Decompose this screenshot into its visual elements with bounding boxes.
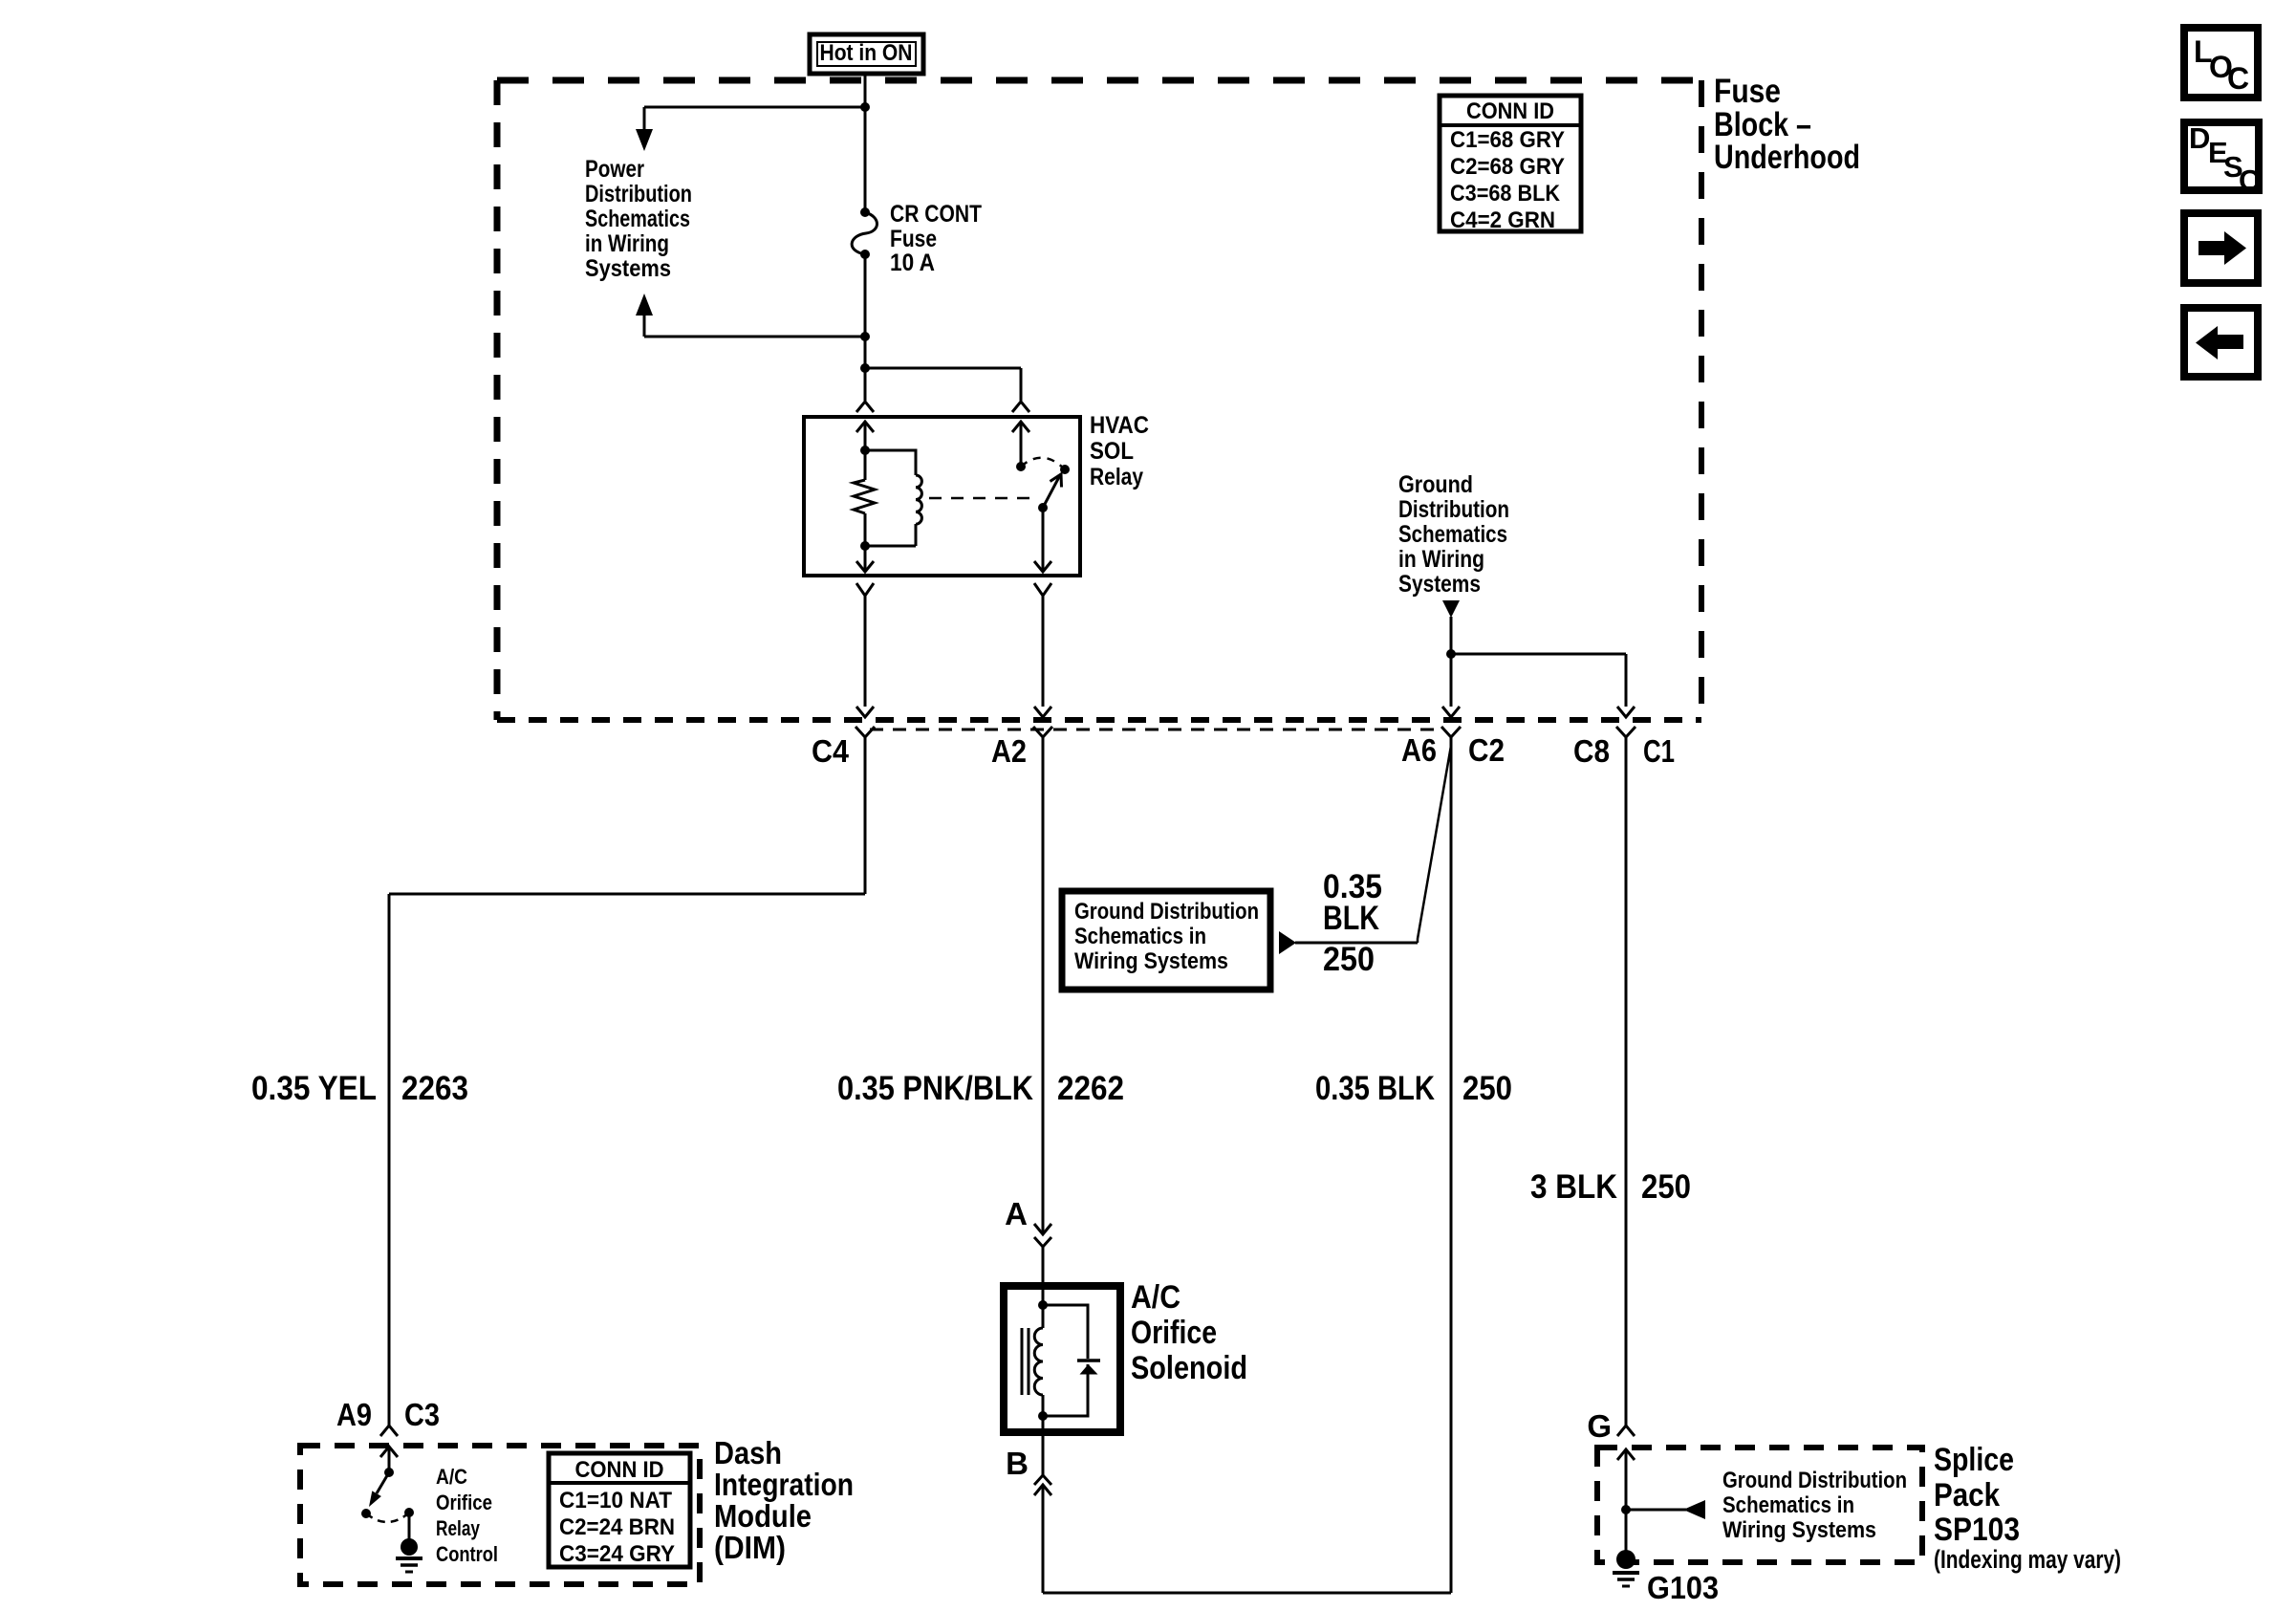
svg-text:Ground: Ground: [1398, 471, 1473, 498]
wire ground split down to A6 pin: [1450, 654, 1453, 707]
svg-text:A: A: [1005, 1196, 1028, 1231]
connector pin C4 at fuse block bottom: [856, 707, 875, 745]
wire C2 down to bottom run: [1450, 746, 1453, 1593]
svg-text:CR CONT: CR CONT: [890, 201, 982, 228]
connector female Y below relay left: [856, 583, 874, 707]
svg-text:Ground Distribution: Ground Distribution: [1722, 1468, 1907, 1493]
junction node below fuse: [860, 332, 870, 341]
svg-text:250: 250: [1462, 1070, 1512, 1107]
svg-text:(Indexing may vary): (Indexing may vary): [1934, 1545, 2121, 1574]
inline connector at pin B: [1034, 1475, 1051, 1593]
wire ground split to C8 pin: [1451, 654, 1626, 707]
label Dash Integration Module (DIM): [714, 1435, 854, 1565]
junction node relay feed split: [860, 363, 870, 373]
solenoid core bars: [1022, 1328, 1029, 1395]
junction node coil bottom: [860, 541, 870, 551]
conn id table fuse block: [1440, 96, 1581, 233]
svg-text:0.35 BLK: 0.35 BLK: [1315, 1070, 1435, 1107]
svg-text:Relay: Relay: [1090, 464, 1143, 490]
flyback diode D1: [1043, 1305, 1100, 1416]
svg-text:Systems: Systems: [585, 255, 671, 282]
DIM driver switch contact top: [384, 1468, 394, 1477]
svg-text:Integration: Integration: [714, 1467, 854, 1502]
note Indexing may vary: [1934, 1545, 2121, 1574]
connector female Y below relay right: [1034, 583, 1051, 707]
wire C4 branch down and left to DIM: [389, 745, 865, 1426]
svg-text:Pack: Pack: [1934, 1477, 2000, 1513]
svg-text:Orifice: Orifice: [1131, 1315, 1217, 1351]
wire label 0.35 PNK/BLK: [837, 1070, 1033, 1107]
junction node at top: [860, 102, 870, 112]
svg-text:C1=10 NAT: C1=10 NAT: [559, 1488, 672, 1513]
text Ground Distribution Schematics in Wiring Systems right side: [1398, 471, 1509, 598]
connector male arrow relay common pin bottom: [1034, 508, 1051, 572]
svg-text:G: G: [1587, 1408, 1612, 1444]
svg-text:CONN ID: CONN ID: [575, 1457, 664, 1483]
label HVAC SOL Relay: [1090, 412, 1149, 490]
svg-text:Fuse: Fuse: [890, 226, 937, 252]
svg-text:0.35 YEL: 0.35 YEL: [251, 1070, 377, 1107]
svg-text:C2=24 BRN: C2=24 BRN: [559, 1514, 675, 1540]
svg-text:Relay: Relay: [436, 1516, 481, 1540]
junction node coil top: [860, 446, 870, 455]
svg-text:Distribution: Distribution: [585, 181, 692, 207]
svg-text:Power: Power: [585, 156, 644, 183]
svg-text:250: 250: [1641, 1168, 1691, 1206]
boxed callout Ground Distribution Schematics in Wiring Systems: [1062, 891, 1270, 990]
svg-text:in Wiring: in Wiring: [1398, 546, 1484, 573]
wire C8 C1 down to splice pack: [1625, 745, 1628, 1426]
DIM dashed box: [300, 1446, 700, 1584]
wire label 0.35 BLK 250 stacked: [1323, 868, 1382, 978]
connector male arrow inside splice pack: [1617, 1449, 1635, 1510]
svg-text:C4=2 GRN: C4=2 GRN: [1450, 207, 1555, 233]
svg-text:HVAC: HVAC: [1090, 412, 1149, 439]
connector pin C8 C1 at fuse block bottom: [1616, 707, 1635, 745]
wire return arrow up to Systems text: [636, 294, 865, 337]
relay coil L1: [865, 450, 921, 546]
connector male arrow relay pin 1 inside: [856, 422, 874, 450]
fuse block underhood dashed box: [497, 80, 1701, 720]
wire label 0.35 BLK: [1315, 1070, 1435, 1107]
svg-text:2262: 2262: [1057, 1070, 1124, 1107]
pin label B: [1006, 1446, 1029, 1481]
wire branch to power distribution: [636, 107, 865, 151]
svg-text:A/C: A/C: [436, 1465, 467, 1489]
reference arrow from ground distribution: [1442, 600, 1460, 654]
wire label circuit 250 ground: [1641, 1168, 1691, 1206]
svg-text:C: C: [2227, 61, 2249, 96]
svg-text:Schematics: Schematics: [1398, 521, 1507, 548]
wire diagonal from A6 to ground callout: [1418, 746, 1451, 943]
svg-text:10 A: 10 A: [890, 250, 935, 276]
svg-text:Schematics in: Schematics in: [1722, 1492, 1854, 1518]
svg-text:C1=68 GRY: C1=68 GRY: [1450, 127, 1565, 153]
ground label G103: [1647, 1570, 1719, 1605]
value label CR CONT Fuse 10 A: [890, 201, 982, 276]
svg-text:Hot in ON: Hot in ON: [820, 40, 913, 66]
wire fuse to relay: [864, 254, 867, 401]
wire A2 down to A/C orifice solenoid: [1042, 745, 1045, 1234]
svg-text:C2: C2: [1468, 732, 1505, 768]
dashed throw arc of relay switch: [1021, 458, 1065, 469]
wire label circuit 2262: [1057, 1070, 1124, 1107]
splice pack dashed box: [1597, 1448, 1922, 1562]
connector female Y at relay left pin: [856, 402, 874, 412]
junction node solenoid top: [1038, 1300, 1048, 1310]
svg-text:Schematics: Schematics: [585, 206, 690, 232]
nav box arrow left: [2184, 308, 2258, 377]
junction node splice: [1621, 1505, 1631, 1514]
svg-text:in Wiring: in Wiring: [585, 230, 669, 257]
text Ground Distribution Schematics in Wiring Systems splice: [1722, 1468, 1907, 1543]
dashed mechanical link coil to switch: [929, 497, 1034, 500]
svg-text:G103: G103: [1647, 1570, 1719, 1605]
pin label C4: [812, 733, 850, 769]
wire label 3 BLK: [1530, 1168, 1617, 1206]
svg-text:Systems: Systems: [1398, 571, 1481, 598]
text A/C Orifice Relay Control: [436, 1465, 498, 1566]
svg-text:Wiring Systems: Wiring Systems: [1722, 1517, 1876, 1543]
svg-text:C2=68 GRY: C2=68 GRY: [1450, 154, 1565, 180]
pin label C1: [1643, 733, 1675, 769]
svg-text:BLK: BLK: [1323, 900, 1379, 937]
connector pin A6 C2 at fuse block bottom: [1441, 707, 1461, 746]
wire label circuit 2263: [401, 1070, 468, 1107]
reference arrow to ground distribution text in splice pack: [1626, 1500, 1705, 1519]
connector female Y at splice pack pin G: [1617, 1426, 1635, 1436]
svg-text:Schematics in: Schematics in: [1074, 924, 1206, 949]
nav box arrow right: [2184, 213, 2258, 283]
svg-text:CONN ID: CONN ID: [1466, 98, 1554, 124]
fuse CR CONT 10A: [852, 207, 877, 259]
pin label C3: [404, 1397, 440, 1432]
reference arrow to ground callout: [1279, 931, 1418, 954]
svg-text:SOL: SOL: [1090, 438, 1134, 465]
svg-text:Orifice: Orifice: [436, 1491, 492, 1514]
connector female Y at relay right pin: [1012, 402, 1029, 412]
dashed throw arc DIM switch: [366, 1513, 408, 1522]
pin label C2: [1468, 732, 1505, 768]
solenoid coil winding: [1034, 1305, 1043, 1416]
svg-text:Splice: Splice: [1934, 1442, 2014, 1478]
svg-text:A2: A2: [991, 733, 1027, 769]
connector pin A2 at fuse block bottom: [1033, 707, 1052, 745]
DIM switch ground contact: [404, 1508, 414, 1517]
ground G103: [1613, 1510, 1639, 1586]
svg-text:0.35 PNK/BLK: 0.35 PNK/BLK: [837, 1070, 1033, 1107]
svg-text:Underhood: Underhood: [1714, 139, 1860, 176]
relay switch second contact: [1060, 465, 1070, 474]
nav box LOC: [2184, 28, 2258, 98]
svg-text:C1: C1: [1643, 733, 1675, 769]
pin label A9: [336, 1397, 372, 1432]
inline connector at pin A: [1034, 1224, 1051, 1305]
svg-text:C3=68 BLK: C3=68 BLK: [1450, 181, 1561, 207]
svg-text:C3=24 GRY: C3=24 GRY: [559, 1541, 675, 1567]
connector female Y at DIM pin: [380, 1426, 398, 1436]
resistor inside relay: [854, 450, 875, 546]
pin label A6: [1401, 732, 1437, 768]
svg-text:A/C: A/C: [1131, 1279, 1180, 1316]
wire branch to relay switch pin: [865, 368, 1021, 401]
svg-text:Fuse: Fuse: [1714, 73, 1781, 110]
pin label G: [1587, 1408, 1612, 1444]
relay switch fixed contact from pin: [1012, 422, 1029, 471]
connector male arrow relay pin 2 bottom inside: [856, 546, 874, 572]
label Splice Pack SP103: [1934, 1442, 2020, 1548]
DIM driver switch arm: [369, 1472, 389, 1507]
svg-text:C4: C4: [812, 733, 850, 769]
svg-text:Dash: Dash: [714, 1435, 782, 1470]
pin label A2: [991, 733, 1027, 769]
svg-text:Wiring Systems: Wiring Systems: [1074, 948, 1228, 974]
svg-text:(DIM): (DIM): [714, 1530, 786, 1565]
text Power Distribution Schematics in Wiring Systems: [585, 156, 692, 282]
label A/C Orifice Solenoid: [1131, 1279, 1247, 1386]
pin label A: [1005, 1196, 1028, 1231]
svg-text:Solenoid: Solenoid: [1131, 1350, 1247, 1386]
thin dashed inline connector line: [870, 729, 1441, 731]
svg-text:2263: 2263: [401, 1070, 468, 1107]
connector male arrow inside DIM: [380, 1447, 398, 1472]
svg-text:A6: A6: [1401, 732, 1437, 768]
power label box Hot in ON: [810, 34, 923, 74]
wire hot feed down from Hot in ON: [864, 74, 867, 211]
internal ground of DIM: [396, 1513, 422, 1572]
wire bottom run solenoid B to C2: [1043, 1592, 1451, 1595]
junction node ground feed split: [1446, 649, 1456, 659]
svg-text:Ground Distribution: Ground Distribution: [1074, 899, 1259, 925]
nav box DESC: [2184, 121, 2260, 197]
pin label C8: [1573, 733, 1610, 769]
svg-text:SP103: SP103: [1934, 1512, 2020, 1548]
svg-text:A9: A9: [336, 1397, 372, 1432]
wire label circuit 250: [1462, 1070, 1512, 1107]
svg-text:Distribution: Distribution: [1398, 496, 1509, 523]
relay switch movable arm: [1038, 474, 1062, 512]
wire label 0.35 YEL: [251, 1070, 377, 1107]
svg-text:Control: Control: [436, 1542, 498, 1566]
solenoid box A/C Orifice Solenoid: [1004, 1286, 1120, 1432]
label Fuse Block - Underhood: [1714, 73, 1860, 176]
svg-text:3 BLK: 3 BLK: [1530, 1168, 1617, 1206]
svg-text:B: B: [1006, 1446, 1029, 1481]
svg-text:C8: C8: [1573, 733, 1610, 769]
conn id table DIM: [549, 1453, 690, 1567]
junction node solenoid bottom: [1038, 1411, 1048, 1421]
svg-text:C3: C3: [404, 1397, 440, 1432]
relay U1 box HVAC SOL Relay: [804, 417, 1080, 576]
svg-text:C: C: [2239, 163, 2260, 197]
svg-text:Module: Module: [714, 1498, 812, 1534]
DIM switch lower contact: [361, 1509, 371, 1518]
svg-text:250: 250: [1323, 941, 1375, 978]
wire solenoid to pin B: [1042, 1416, 1045, 1475]
